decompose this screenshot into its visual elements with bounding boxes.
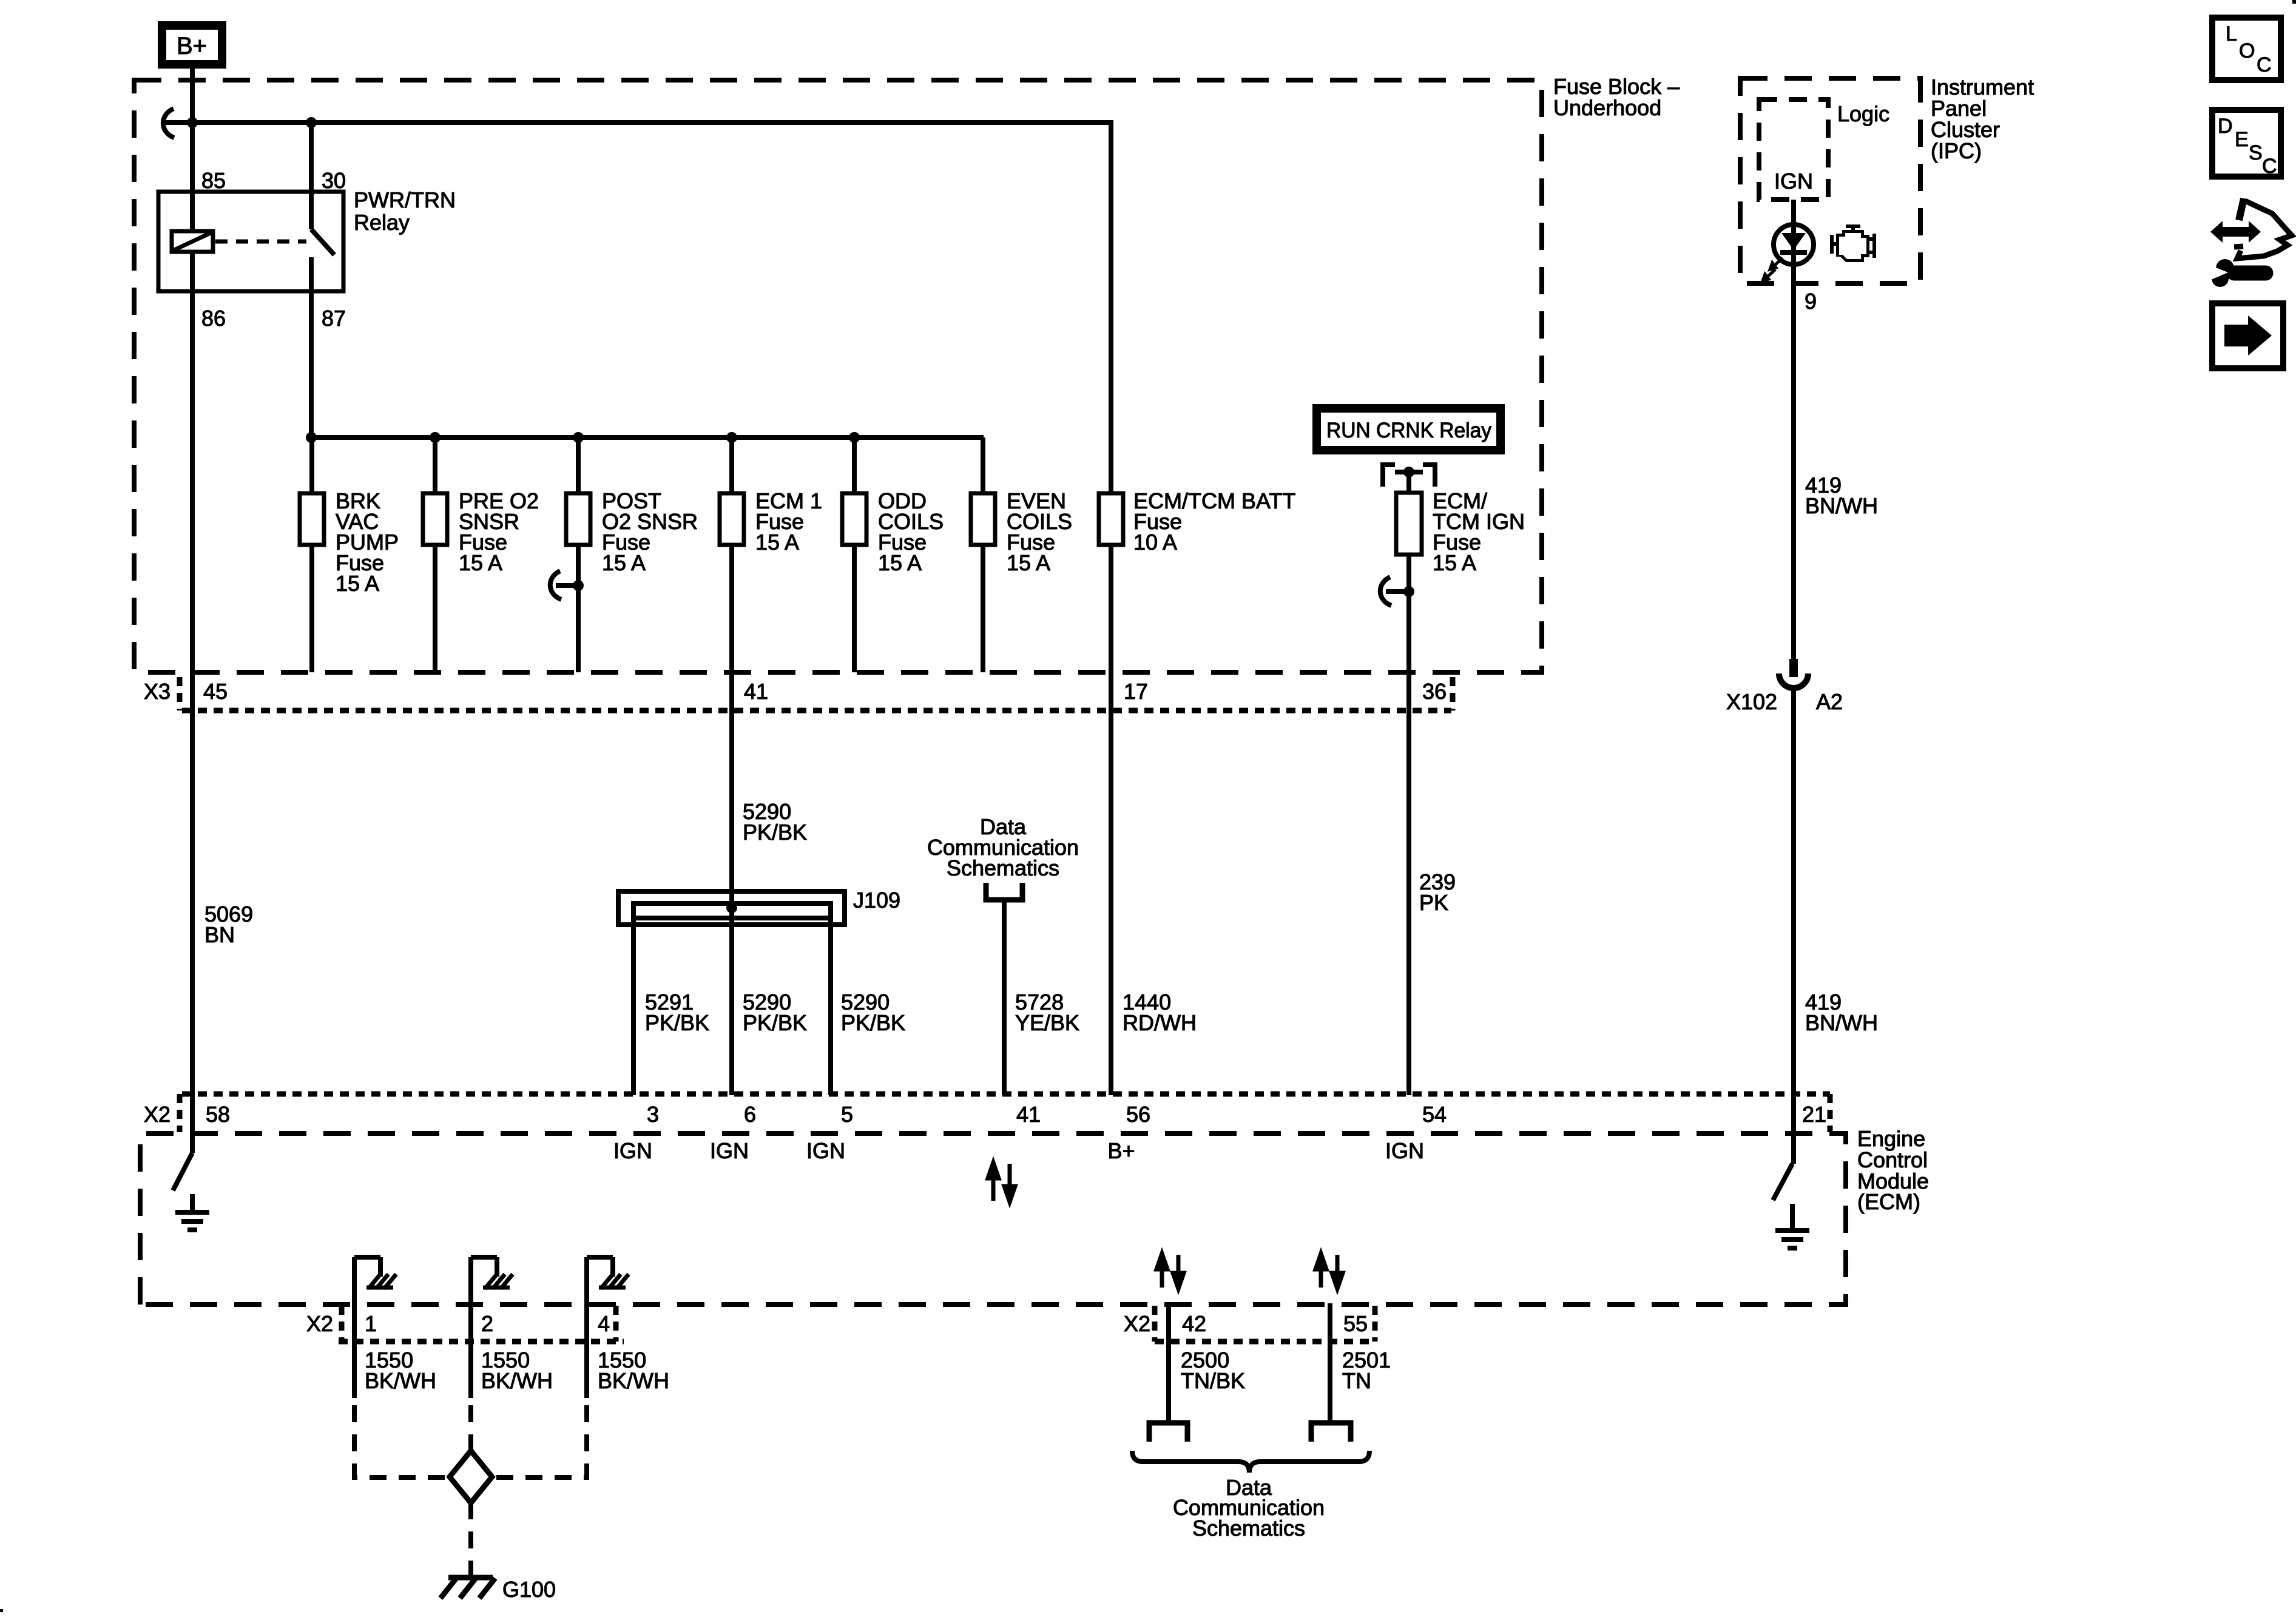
svg-text:C: C bbox=[2257, 53, 2272, 76]
svg-text:B+: B+ bbox=[177, 33, 207, 59]
svg-text:X2: X2 bbox=[144, 1102, 171, 1127]
svg-text:(ECM): (ECM) bbox=[1857, 1189, 1920, 1214]
svg-text:6: 6 bbox=[744, 1102, 756, 1127]
svg-text:X3: X3 bbox=[144, 679, 171, 704]
svg-text:Relay: Relay bbox=[354, 210, 410, 235]
svg-text:42: 42 bbox=[1182, 1311, 1206, 1336]
svg-text:17: 17 bbox=[1124, 679, 1148, 704]
svg-text:BN/WH: BN/WH bbox=[1805, 493, 1878, 518]
svg-text:PK/BK: PK/BK bbox=[645, 1010, 709, 1035]
svg-text:Underhood: Underhood bbox=[1553, 95, 1661, 120]
svg-text:TN/BK: TN/BK bbox=[1181, 1368, 1245, 1393]
svg-text:L: L bbox=[2226, 22, 2237, 46]
svg-text:IGN: IGN bbox=[1774, 169, 1813, 194]
svg-text:IGN: IGN bbox=[710, 1138, 749, 1163]
svg-text:X102: X102 bbox=[1726, 689, 1777, 714]
svg-text:15 A: 15 A bbox=[1433, 550, 1476, 575]
svg-text:2: 2 bbox=[481, 1311, 493, 1336]
svg-text:21: 21 bbox=[1802, 1102, 1826, 1127]
svg-text:IGN: IGN bbox=[806, 1138, 845, 1163]
svg-text:45: 45 bbox=[203, 679, 228, 704]
svg-text:30: 30 bbox=[322, 168, 346, 193]
svg-text:IGN: IGN bbox=[613, 1138, 652, 1163]
svg-text:15 A: 15 A bbox=[755, 530, 799, 555]
svg-text:85: 85 bbox=[201, 168, 226, 193]
svg-text:10 A: 10 A bbox=[1133, 530, 1177, 555]
svg-text:BK/WH: BK/WH bbox=[598, 1368, 669, 1393]
svg-text:PK/BK: PK/BK bbox=[743, 1010, 807, 1035]
svg-text:RUN CRNK Relay: RUN CRNK Relay bbox=[1326, 419, 1491, 442]
svg-text:BN: BN bbox=[204, 922, 235, 947]
svg-text:58: 58 bbox=[206, 1102, 230, 1127]
svg-text:56: 56 bbox=[1126, 1102, 1150, 1127]
svg-text:A2: A2 bbox=[1816, 689, 1843, 714]
svg-text:9: 9 bbox=[1805, 289, 1817, 314]
svg-text:TN: TN bbox=[1342, 1368, 1371, 1393]
svg-text:Schematics: Schematics bbox=[947, 856, 1059, 880]
svg-text:41: 41 bbox=[1016, 1102, 1041, 1127]
svg-text:X2: X2 bbox=[306, 1311, 333, 1336]
svg-text:36: 36 bbox=[1422, 679, 1447, 704]
svg-text:4: 4 bbox=[598, 1311, 610, 1336]
svg-text:1: 1 bbox=[365, 1311, 377, 1336]
svg-text:IGN: IGN bbox=[1385, 1138, 1424, 1163]
svg-text:C: C bbox=[2262, 155, 2277, 178]
svg-text:YE/BK: YE/BK bbox=[1015, 1010, 1079, 1035]
svg-text:RD/WH: RD/WH bbox=[1123, 1010, 1197, 1035]
svg-text:Schematics: Schematics bbox=[1192, 1516, 1305, 1541]
svg-text:86: 86 bbox=[201, 306, 226, 331]
svg-text:15 A: 15 A bbox=[878, 550, 922, 575]
svg-text:E: E bbox=[2235, 128, 2249, 151]
svg-text:S: S bbox=[2249, 141, 2263, 164]
svg-text:PWR/TRN: PWR/TRN bbox=[354, 187, 456, 212]
svg-text:PK/BK: PK/BK bbox=[841, 1010, 905, 1035]
svg-text:15 A: 15 A bbox=[336, 571, 379, 596]
svg-text:BK/WH: BK/WH bbox=[365, 1368, 436, 1393]
svg-text:54: 54 bbox=[1422, 1102, 1447, 1127]
svg-text:(IPC): (IPC) bbox=[1931, 138, 1982, 163]
svg-text:O: O bbox=[2239, 39, 2255, 62]
svg-text:G100: G100 bbox=[502, 1577, 556, 1602]
svg-text:PK: PK bbox=[1419, 890, 1448, 915]
svg-text:3: 3 bbox=[647, 1102, 659, 1127]
svg-text:J109: J109 bbox=[853, 888, 900, 913]
svg-text:5: 5 bbox=[841, 1102, 853, 1127]
svg-text:X2: X2 bbox=[1124, 1311, 1150, 1336]
svg-text:15 A: 15 A bbox=[602, 550, 646, 575]
svg-text:41: 41 bbox=[744, 679, 768, 704]
svg-text:15 A: 15 A bbox=[459, 550, 502, 575]
svg-text:BK/WH: BK/WH bbox=[481, 1368, 553, 1393]
svg-text:Logic: Logic bbox=[1837, 101, 1889, 126]
svg-text:87: 87 bbox=[322, 306, 346, 331]
svg-text:55: 55 bbox=[1343, 1311, 1368, 1336]
svg-text:15 A: 15 A bbox=[1007, 550, 1050, 575]
svg-text:BN/WH: BN/WH bbox=[1805, 1010, 1878, 1035]
svg-text:B+: B+ bbox=[1107, 1138, 1135, 1163]
svg-text:D: D bbox=[2218, 115, 2233, 138]
svg-text:PK/BK: PK/BK bbox=[743, 820, 807, 845]
